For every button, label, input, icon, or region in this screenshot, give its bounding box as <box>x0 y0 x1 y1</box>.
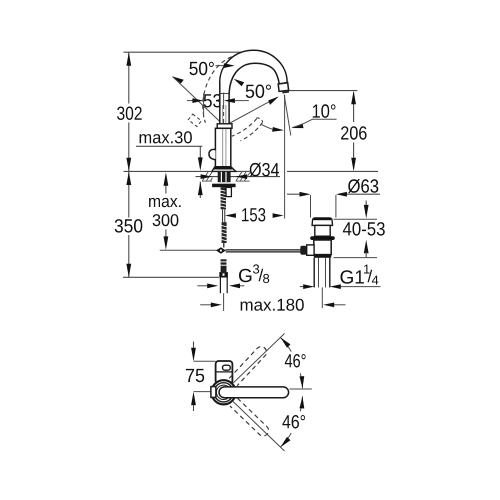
neck joint line <box>220 92 229 94</box>
dimension 75 text <box>186 369 204 382</box>
hub left tab <box>211 387 216 398</box>
dimension 350 text <box>115 219 143 233</box>
dimension 40-53 extension top <box>334 218 378 220</box>
10 degree arc arrows <box>272 123 303 131</box>
dimension 302 line <box>128 52 130 171</box>
dimension 40-53 text <box>343 222 385 236</box>
dimension diameter 63 text <box>348 179 378 193</box>
dimension max.180 arrows <box>211 303 334 308</box>
dimension G1 1/4 arrows <box>300 286 381 288</box>
dimension max.30 arrows <box>198 157 203 195</box>
10 degree arc left tail <box>262 125 275 130</box>
aerator outlet reference line <box>288 90 358 92</box>
swivel 50 degree left text <box>190 62 214 75</box>
swivel 50 degree left leader <box>216 65 226 67</box>
dimension max.300 arrows <box>164 172 169 250</box>
swivel axis left arrow <box>173 76 184 84</box>
dimension 302 arrows <box>126 52 131 171</box>
pop-up waste seal ring <box>310 236 335 240</box>
spout aerator <box>278 83 288 92</box>
valve body plan view <box>216 361 233 384</box>
dimension 40-53 extension bottom <box>334 257 378 259</box>
pop-up waste neck <box>315 225 330 236</box>
dimension max.30 leader <box>136 146 202 198</box>
dimension 46 degree upper text <box>285 354 306 368</box>
diameter 63 extension lines <box>311 195 336 218</box>
faucet base flange <box>212 167 236 172</box>
label G 3/8 <box>239 269 251 283</box>
faucet base flange dark band <box>213 167 233 170</box>
mounting surface line middle <box>236 170 250 172</box>
valve body slot <box>223 365 231 370</box>
dimension max.180 text <box>241 299 304 311</box>
dimension 53 text <box>204 94 222 108</box>
top reference line <box>124 51 263 53</box>
dimension 350 line <box>128 172 130 278</box>
mounting shank block <box>218 172 231 183</box>
swivel 50 degree right leader arrow <box>234 79 245 86</box>
dimension 53 left arrow <box>187 100 249 102</box>
46 degree arc lower arrows <box>279 396 305 449</box>
waste tailpipe <box>314 258 330 288</box>
46 degree rotated axis line lower <box>233 402 284 451</box>
dimension 53 left extension line <box>203 94 205 118</box>
dimension max.300 text <box>149 198 181 207</box>
faucet neck collar <box>217 124 232 129</box>
dimension 350 arrows <box>126 172 131 278</box>
dimension 40-53 lower arrow <box>364 240 369 254</box>
countertop hatch right <box>236 172 250 181</box>
46 degree arc upper <box>280 337 302 388</box>
pop-up waste body bottom band <box>314 255 331 258</box>
swivel ghost dashes right second <box>241 123 263 141</box>
handle hub middle ring <box>214 383 233 402</box>
dashed lever rotated up <box>229 344 269 385</box>
dashed lever rotated down <box>230 398 271 438</box>
countertop hatch left <box>202 172 212 181</box>
pop-up waste body <box>314 240 331 255</box>
handle lever plan view <box>219 387 289 398</box>
dimension 40-53 upper line <box>365 201 367 207</box>
dimension 75 extension lines <box>194 361 216 391</box>
bottom reference line <box>123 276 219 278</box>
rod joint diamond <box>216 247 226 254</box>
46 degree arc upper arrows <box>279 336 305 389</box>
lever tip extension line <box>290 388 312 390</box>
dimension 75 arrows <box>191 348 196 405</box>
pull rod lower threaded section <box>222 222 227 243</box>
pop-up waste pivot block <box>300 246 306 255</box>
pull rod plain section <box>223 209 225 222</box>
dimension max.300 line <box>165 185 167 239</box>
handle hub outer ring <box>212 380 236 404</box>
mounting surface line left <box>124 170 212 172</box>
swivel 50 degree right text <box>246 85 271 99</box>
faucet spout tube <box>220 50 287 124</box>
supply connector nut <box>219 272 228 277</box>
waste center line <box>321 287 323 308</box>
supply tube center line <box>223 293 225 311</box>
mounting surface line right <box>287 170 378 172</box>
dimension max.30 text <box>140 131 192 143</box>
swivel axis right arrow <box>268 95 279 105</box>
pop-up waste flange <box>312 218 332 225</box>
water stream vertical line <box>284 95 286 219</box>
swivel axis line left <box>173 77 225 127</box>
dimension diameter 34 text <box>250 163 279 177</box>
locknut <box>212 184 236 188</box>
46 degree rotated axis line upper <box>233 334 284 383</box>
dimension max.180 leaders <box>200 304 345 306</box>
dimension 53 dashed axis extension <box>223 93 225 106</box>
dimension 10 degree text <box>313 104 336 118</box>
dimension diameter 34 line <box>196 176 281 178</box>
10 degree leader <box>292 119 313 128</box>
dimension 153 text <box>242 208 265 222</box>
dimension diameter 63 arrows <box>300 192 347 197</box>
pull rod lower plain <box>223 243 225 248</box>
dimension 206 text <box>341 126 367 140</box>
valve body divider <box>216 371 233 373</box>
pull rod upper threaded section <box>221 187 226 209</box>
water stream 10 degree line <box>284 95 291 136</box>
swivel axis line right <box>225 97 278 126</box>
pull rod clamp block <box>226 187 231 196</box>
swivel 50 degree left leader arrow <box>224 63 235 68</box>
waste tailpipe inner thread lines <box>319 258 326 288</box>
faucet column inner lines <box>223 129 226 166</box>
supply connector G38 block <box>221 259 227 272</box>
10 degree underline <box>313 118 337 120</box>
max 300 reference line <box>160 249 226 251</box>
horizontal pop-up rod <box>226 250 301 252</box>
swivel ghost spout dashed left <box>203 57 232 123</box>
label G1 1/4 <box>341 270 364 284</box>
handle hub inner ring <box>216 385 230 399</box>
neck cartridge lines <box>223 105 226 124</box>
dimension 302 text <box>117 107 142 121</box>
faucet body column <box>215 128 230 167</box>
pop-up waste flange dark top <box>314 218 331 221</box>
dimension 153 arrows <box>225 213 284 218</box>
swivel ghost dashes right <box>232 119 257 137</box>
dimension 75 upper line <box>193 342 195 412</box>
faucet handle lever side <box>209 149 216 159</box>
ghost aerator cap right <box>257 118 263 122</box>
dimension 206 arrows <box>351 91 356 171</box>
dimension diameter 63 line <box>287 193 380 195</box>
dimension 206 line <box>353 93 355 169</box>
46 degree arc lower <box>280 396 302 447</box>
dimension 46 degree lower text <box>282 415 305 429</box>
dimension G38 arrows <box>197 285 244 287</box>
dimension diameter 34 arrows <box>201 174 248 179</box>
ghost aerator dashes left <box>188 114 201 126</box>
dimension 40-53 upper arrow <box>364 205 369 219</box>
supply tube <box>220 278 227 294</box>
